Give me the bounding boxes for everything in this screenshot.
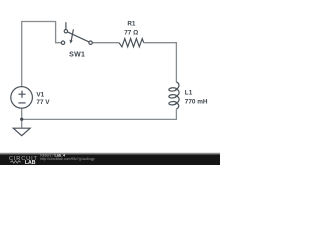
terminal circle upper throw [64, 30, 67, 33]
svg-text:770 mH: 770 mH [185, 99, 208, 106]
node junction dot [20, 118, 23, 121]
svg-text:SW1: SW1 [69, 51, 85, 58]
label V1 value 77 V [36, 92, 50, 106]
wire V1 bottom to node [21, 108, 23, 119]
actuation arrow [71, 29, 73, 40]
lever [68, 32, 90, 42]
svg-text:V1: V1 [36, 92, 44, 99]
svg-text:http://circuitlab.com/95z7g1ao: http://circuitlab.com/95z7g1ao6ogp [40, 157, 94, 161]
svg-text:77 V: 77 V [36, 99, 50, 106]
wire resistor R1 to inductor L1 top [144, 43, 177, 82]
terminal circle lower throw [61, 41, 64, 44]
resistor R1 [119, 39, 144, 47]
svg-text:77 Ω: 77 Ω [124, 29, 138, 36]
ground [13, 128, 30, 136]
svg-text:LAB: LAB [25, 160, 36, 165]
wire node to ground [21, 119, 23, 128]
label R1 value 77 Ohm [124, 21, 138, 37]
svg-text:R1: R1 [127, 21, 136, 28]
terminal circle common [89, 41, 92, 44]
wire left loop: V1 top up, across top, down to switch left throw [22, 22, 62, 87]
voltage source V1 [11, 87, 33, 109]
svg-text:L1: L1 [185, 90, 193, 97]
footer CircuitLab logo [9, 156, 38, 166]
switch SW1 [61, 22, 92, 44]
label L1 value 770 mH [185, 90, 208, 106]
footer bar [0, 152, 220, 155]
inductor L1 [169, 82, 179, 109]
wire inductor L1 bottom to bottom rail back to node [22, 109, 177, 119]
wire switch common to resistor R1 [92, 42, 119, 44]
pin stub (upper throw) [65, 22, 67, 29]
